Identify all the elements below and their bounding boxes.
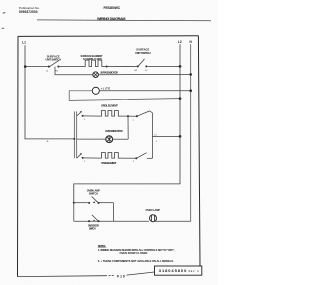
- pin label selector bottom: [84, 161, 85, 163]
- switch door switch: [88, 215, 100, 222]
- wire lamp box right side: [112, 203, 114, 222]
- part number text: [159, 268, 187, 273]
- wire oven lamp switch branch: [74, 202, 88, 204]
- svg-text:1: 1: [156, 141, 157, 143]
- pin label H1: [55, 70, 58, 72]
- switch S2 surface unit switch H2-L2: [137, 59, 148, 68]
- switch S1 surface unit switch L1-H1: [48, 60, 60, 67]
- wire bars to indicator lamp: [77, 138, 106, 140]
- svg-text:L2: L2: [178, 40, 182, 44]
- label surface element value: [81, 54, 103, 58]
- lamp oven light: [92, 87, 99, 94]
- pin label broil contact: [133, 120, 134, 122]
- footer rule left: [18, 275, 108, 278]
- svg-text:1: 1: [84, 119, 85, 121]
- oven temp control broil contact: [136, 111, 153, 117]
- oven temp control bake contact: [135, 153, 152, 160]
- wire indicator feed: [55, 67, 93, 75]
- svg-text:Publication No.: Publication No.: [19, 6, 40, 10]
- pin label mid: [156, 141, 157, 143]
- junction middle L2 bus: [179, 135, 182, 138]
- svg-text:SWITCH: SWITCH: [89, 228, 96, 231]
- junction selector feed: [73, 138, 75, 140]
- junction light L2 bus: [179, 97, 182, 100]
- node label L2 mid: [155, 134, 158, 136]
- lamp surface indicator light: [93, 72, 99, 78]
- resistor surface element: [84, 60, 104, 66]
- wire to N: [98, 73, 190, 75]
- junction row2 N bus: [189, 73, 192, 76]
- lamp oven indicator: [106, 136, 113, 143]
- wire: [121, 115, 137, 117]
- model number text: [104, 6, 121, 10]
- label switch S2: [136, 48, 149, 52]
- selector bake contact: [77, 153, 84, 159]
- header rule: [37, 19, 211, 22]
- junction lamp box node: [73, 202, 75, 204]
- left margin tick 2: [2, 27, 4, 29]
- wire oven lamp to N: [155, 220, 191, 222]
- junction indicator tap: [127, 115, 129, 117]
- wire row1 from L1: [25, 66, 49, 68]
- notes heading: [98, 244, 106, 248]
- diagram border top: [18, 35, 199, 38]
- label door switch: [88, 225, 99, 228]
- label oven indicator: [105, 129, 123, 133]
- wire: [148, 65, 180, 67]
- label oven lamp switch: [87, 188, 100, 192]
- wire door switch branch: [74, 220, 149, 222]
- pin label L1: [46, 70, 49, 72]
- svg-text:-8-: -8-: [46, 141, 49, 143]
- L1 bus wire: [25, 45, 74, 139]
- wire: [121, 157, 137, 159]
- diagram title WIRING DIAGRAM: [97, 17, 126, 21]
- svg-text:L1: L1: [22, 41, 26, 45]
- N bus wire: [190, 44, 192, 221]
- node L1 label: [22, 41, 26, 45]
- node L2 label: [178, 40, 182, 44]
- wire junction vertical: [151, 113, 153, 159]
- part number box: [155, 266, 202, 275]
- footer rule right: [127, 272, 155, 275]
- wire indicator lamp to tap: [113, 138, 129, 140]
- svg-text:OVEN DOOR: OVEN DOOR: [88, 225, 99, 228]
- label bake element: [101, 161, 116, 165]
- resistor bake element: [100, 153, 120, 159]
- wire: [104, 65, 137, 67]
- wire indicator drop: [127, 116, 129, 139]
- resistor broil element: [100, 111, 120, 117]
- note line 1: [98, 248, 175, 252]
- svg-text:FES300WC: FES300WC: [104, 6, 121, 10]
- svg-text:5995372503: 5995372503: [19, 10, 38, 14]
- diagram border right: [198, 36, 200, 267]
- label switch S1: [47, 54, 60, 58]
- svg-text:F19: F19: [117, 275, 125, 279]
- selector broil contact: [77, 111, 84, 117]
- page number F19: [117, 275, 125, 279]
- svg-text:318045800: 318045800: [159, 268, 187, 273]
- revision text: [189, 270, 199, 273]
- pin label bake contact: [133, 161, 134, 163]
- label oven light: [101, 86, 111, 90]
- junction row1 L2 bus: [179, 65, 182, 68]
- junction L1 row1: [24, 65, 27, 68]
- publication number text: [19, 6, 40, 10]
- wire: [83, 115, 101, 117]
- switch oven lamp switch: [88, 197, 100, 204]
- pin label selector top: [84, 119, 85, 121]
- L2 bus wire: [74, 44, 180, 202]
- wire to L2 bus: [152, 135, 180, 137]
- label surface indicator: [100, 72, 118, 75]
- left margin tick 1: [3, 12, 6, 15]
- wire: [98, 202, 114, 204]
- wire lamp box left side: [73, 203, 75, 222]
- svg-text:2: 2: [133, 120, 134, 122]
- svg-text:2: 2: [133, 161, 134, 163]
- wire oven light to L2: [69, 91, 180, 101]
- note line 2: [120, 251, 149, 255]
- svg-text:1: 1: [84, 161, 85, 163]
- label oven lamp: [145, 208, 160, 212]
- wire oven light to N: [99, 90, 190, 92]
- note line 3: [98, 259, 174, 263]
- pin label L2: [145, 70, 148, 72]
- label broil element: [101, 104, 118, 108]
- junction element end: [106, 66, 108, 68]
- oven selector switch bars: [74, 111, 76, 158]
- wire: [58, 66, 84, 68]
- pin label H2: [135, 70, 138, 72]
- node N label: [189, 40, 192, 44]
- junction row3 N bus: [189, 89, 192, 92]
- diagram border left: [17, 36, 20, 276]
- wire label on selector feed: [46, 141, 49, 143]
- wire: [83, 157, 101, 159]
- lamp oven lamp: [150, 215, 157, 222]
